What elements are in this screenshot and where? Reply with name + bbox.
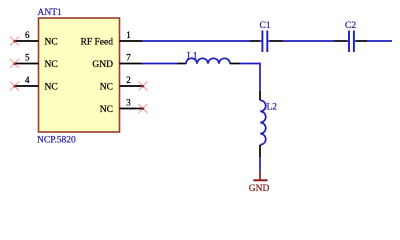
- pin number 3: [126, 97, 131, 107]
- svg-text:NCP.5820: NCP.5820: [37, 135, 76, 145]
- capacitor C2 left lead: [335, 40, 349, 42]
- wire C1 to C2: [283, 40, 335, 42]
- svg-text:C2: C2: [345, 21, 356, 31]
- pin 5: [15, 63, 39, 65]
- pin name NC (pin 6): [45, 38, 58, 48]
- svg-text:NC: NC: [45, 38, 58, 48]
- capacitor C1 left lead: [250, 40, 262, 42]
- svg-text:NC: NC: [100, 105, 113, 115]
- svg-text:L2: L2: [267, 103, 278, 113]
- wire pin1 to C1: [142, 40, 250, 42]
- svg-text:L1: L1: [187, 52, 198, 62]
- no-ERC marker X pin 2: [139, 82, 148, 91]
- inductor L1 left lead: [178, 63, 187, 65]
- svg-text:RF Feed: RF Feed: [81, 38, 114, 48]
- label NCP.5820: [37, 135, 76, 145]
- svg-text:5: 5: [25, 52, 30, 62]
- pin 1: [120, 40, 143, 42]
- label L2: [267, 103, 278, 113]
- wire C2 to output: [367, 40, 392, 42]
- pin 4: [15, 85, 39, 87]
- pin 6: [15, 40, 39, 42]
- capacitor C1 right lead: [268, 40, 283, 42]
- capacitor C1 plates: [262, 31, 267, 53]
- label C1: [260, 21, 271, 31]
- svg-text:GND: GND: [249, 184, 270, 194]
- svg-text:C1: C1: [260, 21, 271, 31]
- pin number 2: [126, 75, 131, 85]
- ground net label GND: [249, 184, 270, 194]
- label L1: [187, 52, 198, 62]
- wire L2 to GND: [259, 157, 261, 172]
- pin number 6: [25, 30, 30, 40]
- pin name NC (pin 2): [100, 83, 113, 93]
- inductor L1 right lead: [230, 63, 240, 65]
- pin name NC (pin 3): [100, 105, 113, 115]
- pin name RF Feed (pin 1): [81, 38, 114, 48]
- pin number 1: [126, 30, 131, 40]
- label ANT1: [38, 8, 63, 18]
- svg-text:2: 2: [126, 75, 131, 85]
- pin name NC (pin 4): [45, 83, 58, 93]
- inductor L2 bottom lead: [259, 145, 261, 158]
- svg-text:6: 6: [25, 30, 30, 40]
- svg-text:ANT1: ANT1: [38, 8, 63, 18]
- inductor L2 top lead: [259, 91, 261, 101]
- wire L1 to L2 (corner): [240, 64, 260, 91]
- no-ERC marker X pin 5: [10, 59, 19, 68]
- svg-text:1: 1: [126, 30, 131, 40]
- IC ANT1 body: [39, 18, 120, 132]
- pin number 7: [126, 52, 131, 62]
- pin 7: [120, 63, 143, 65]
- wire pin7 to L1: [142, 63, 178, 65]
- inductor L1 coil: [186, 58, 230, 63]
- pin number 4: [25, 75, 30, 85]
- no-ERC marker X pin 3: [139, 104, 148, 113]
- pin name GND (pin 7): [92, 60, 113, 70]
- pin 3: [120, 108, 144, 110]
- ground symbol: [253, 172, 267, 181]
- svg-text:NC: NC: [45, 60, 58, 70]
- pin number 5: [25, 52, 30, 62]
- svg-text:4: 4: [25, 75, 30, 85]
- capacitor C2 plates: [349, 31, 354, 53]
- no-ERC marker X pin 4: [10, 82, 19, 91]
- svg-text:3: 3: [126, 97, 131, 107]
- pin name NC (pin 5): [45, 60, 58, 70]
- pin 2: [120, 85, 144, 87]
- svg-text:NC: NC: [45, 83, 58, 93]
- label C2: [345, 21, 356, 31]
- no-ERC marker X pin 6: [10, 37, 19, 46]
- svg-text:GND: GND: [92, 60, 113, 70]
- svg-text:NC: NC: [100, 83, 113, 93]
- capacitor C2 right lead: [355, 40, 367, 42]
- svg-text:7: 7: [126, 52, 131, 62]
- inductor L2 coil: [260, 100, 266, 144]
